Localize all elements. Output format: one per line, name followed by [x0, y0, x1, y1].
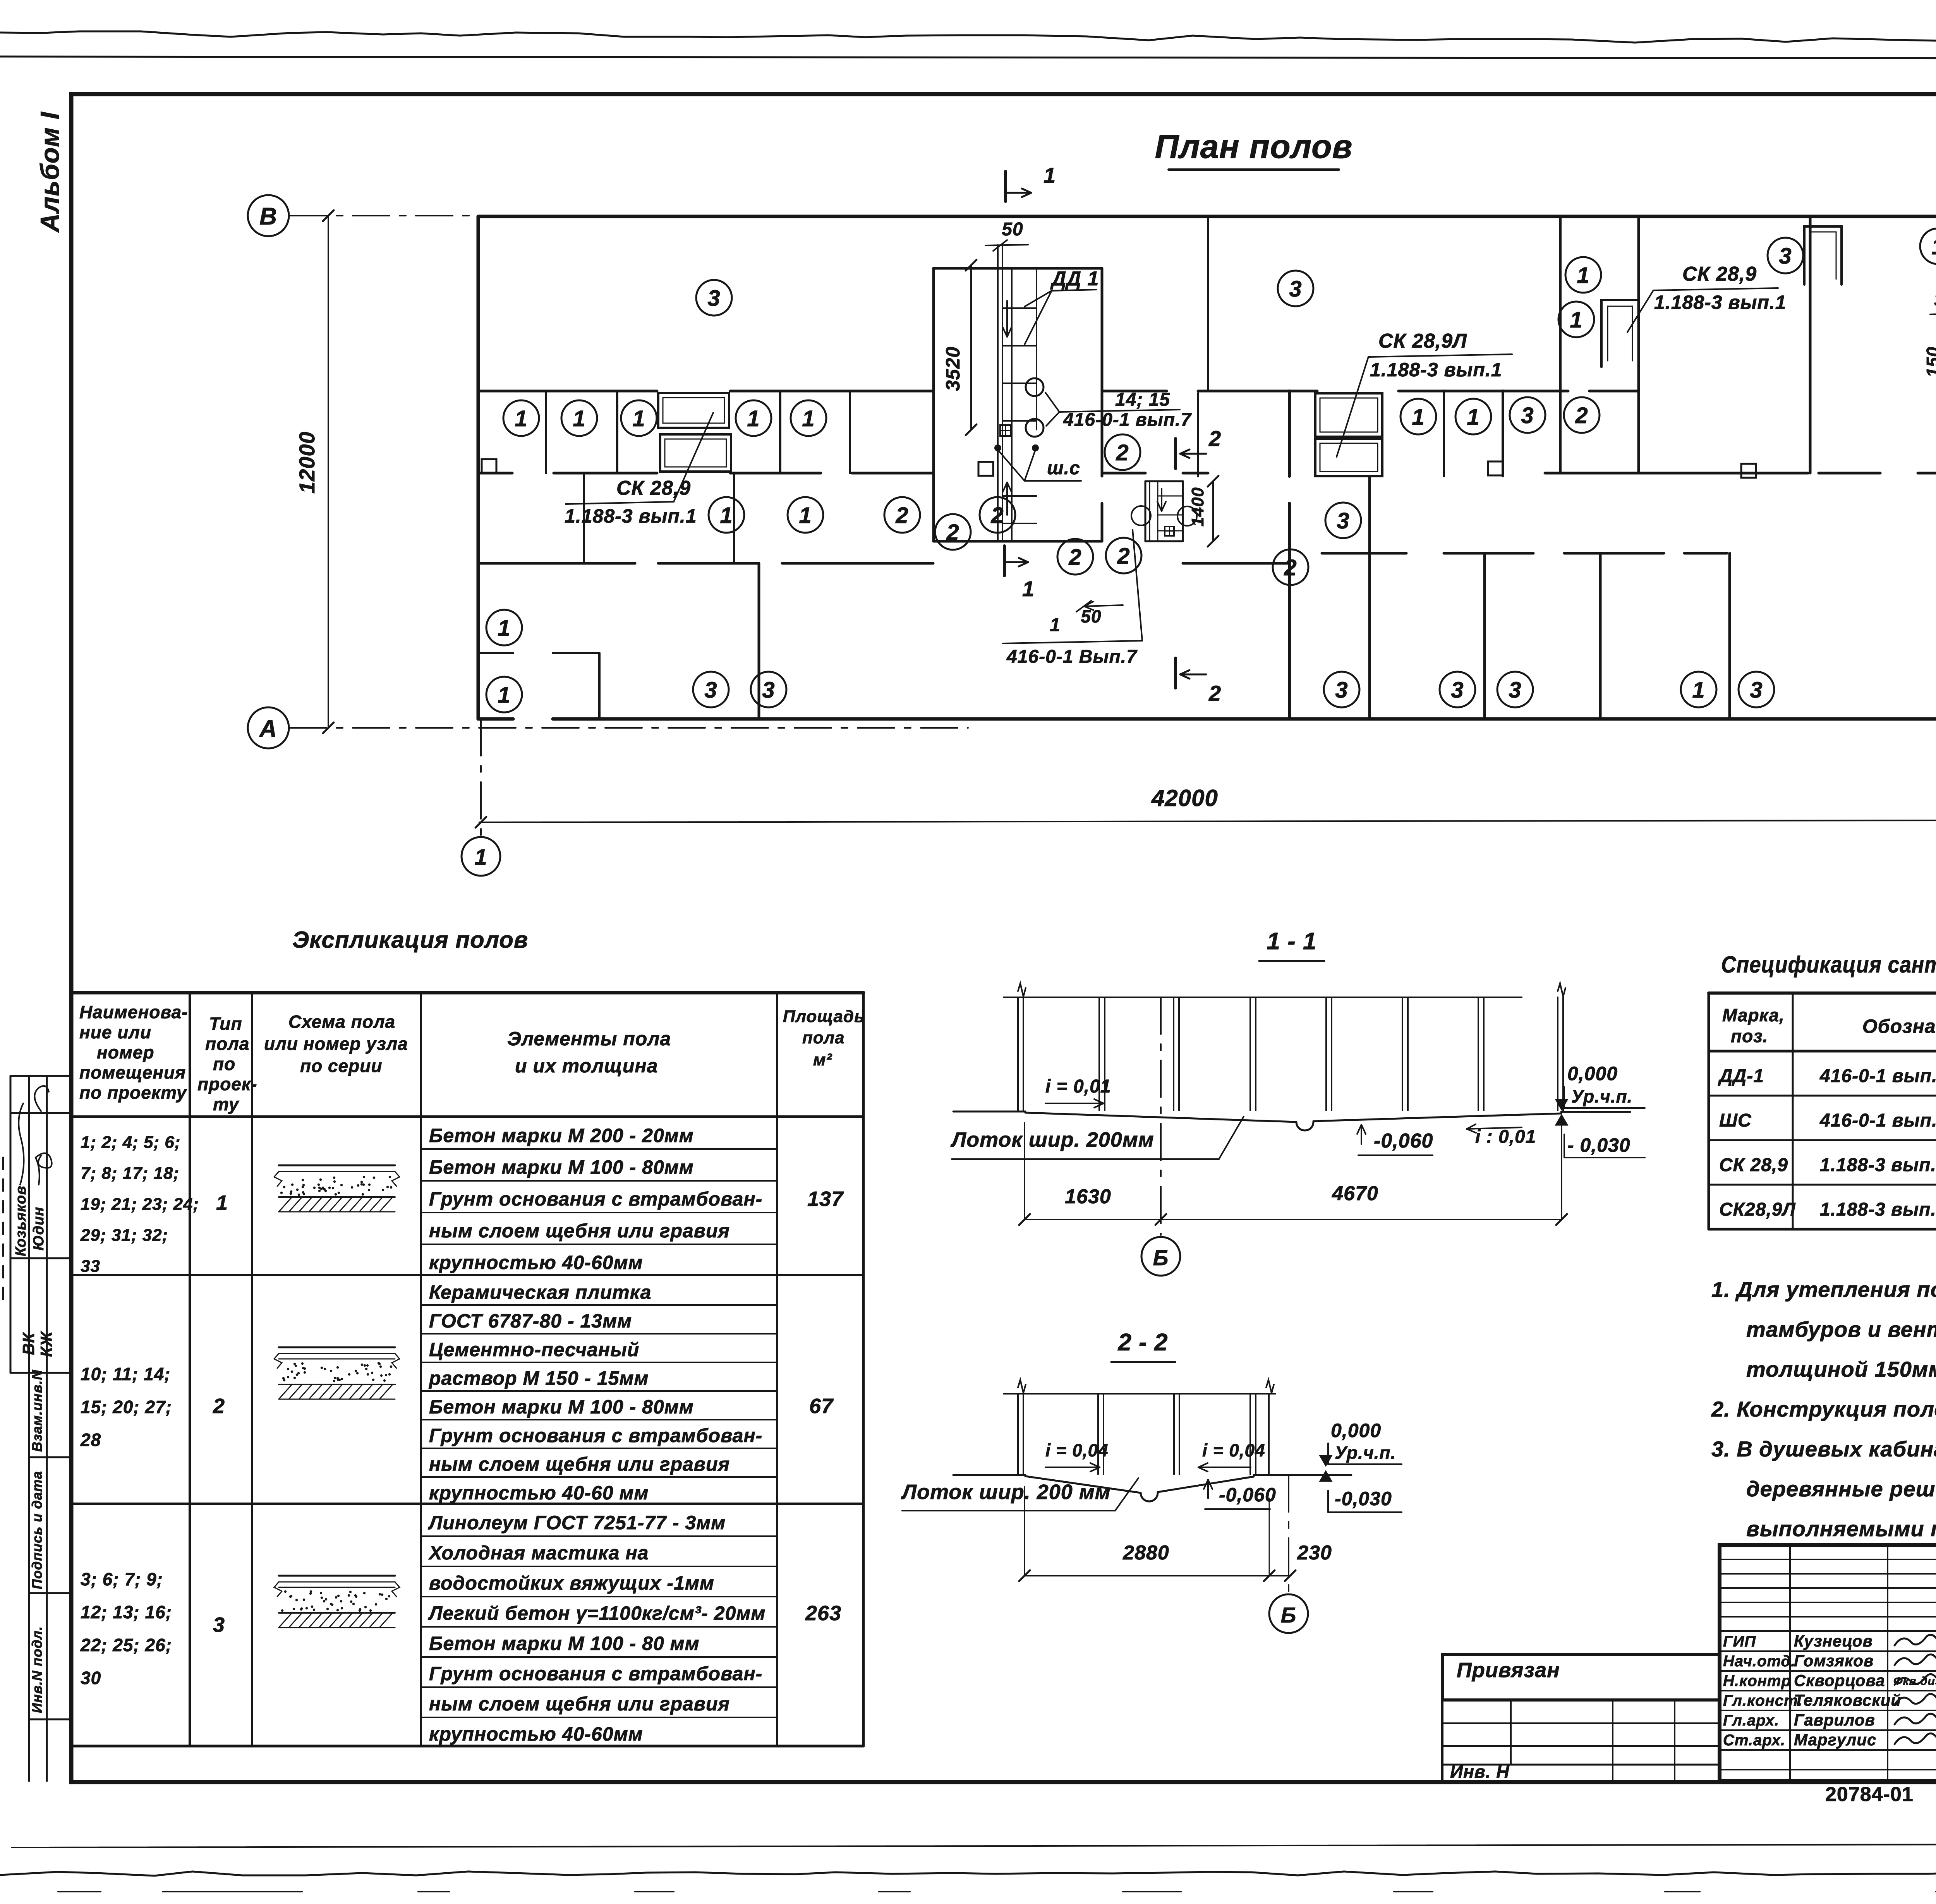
- svg-text:1.188-3 вып.1: 1.188-3 вып.1: [1370, 359, 1502, 381]
- svg-text:Обозначение: Обозначение: [1862, 1015, 1936, 1037]
- left stamp table upper: [10, 1076, 12, 1373]
- svg-text:Н.контр: Н.контр: [1723, 1672, 1791, 1690]
- svg-text:Ст.арх.: Ст.арх.: [1723, 1732, 1785, 1749]
- svg-text:Грунт основания с втрамбован-: Грунт основания с втрамбован-: [429, 1188, 762, 1210]
- svg-text:Бетон марки М 100 - 80 мм: Бетон марки М 100 - 80 мм: [429, 1633, 700, 1654]
- svg-text:Инв. Н: Инв. Н: [1450, 1762, 1509, 1782]
- svg-text:по серии: по серии: [300, 1056, 382, 1076]
- privyazan sub table: [1442, 1722, 1720, 1724]
- svg-text:ДД 1: ДД 1: [1050, 268, 1099, 290]
- svg-text:Экспликация полов: Экспликация полов: [292, 927, 528, 953]
- svg-text:1: 1: [1931, 234, 1936, 259]
- svg-text:крупностью 40-60мм: крупностью 40-60мм: [429, 1723, 643, 1745]
- svg-text:Инв.N подл.: Инв.N подл.: [29, 1626, 45, 1713]
- svg-text:Нач.отд.: Нач.отд.: [1723, 1653, 1795, 1670]
- left stamp dashed mark: [2, 1158, 4, 1305]
- svg-text:ту: ту: [213, 1094, 240, 1114]
- svg-text:3. В душевых кабинах над водо: 3. В душевых кабинах над водоприемными л…: [1711, 1437, 1936, 1461]
- specification row lines: [1709, 1095, 1936, 1097]
- svg-text:1: 1: [1570, 307, 1582, 333]
- section 1-1 wall break marks: [1018, 983, 1026, 997]
- svg-text:Наименова-: Наименова-: [79, 1002, 188, 1022]
- svg-text:300: 300: [1934, 290, 1936, 310]
- svg-text:2: 2: [1284, 555, 1297, 580]
- svg-text:Ур.ч.п.: Ур.ч.п.: [1335, 1443, 1396, 1463]
- corridor wall lower: [478, 472, 512, 475]
- svg-text:Привязан: Привязан: [1457, 1659, 1560, 1682]
- inv box: [1441, 1765, 1443, 1781]
- svg-text:416-0-1 вып. 7: 416-0-1 вып. 7: [1819, 1066, 1936, 1086]
- svg-text:28: 28: [80, 1430, 101, 1450]
- svg-text:1: 1: [632, 406, 645, 431]
- svg-text:3: 3: [1509, 678, 1521, 703]
- partition walls corridor cells: [545, 391, 547, 473]
- svg-text:Б: Б: [1153, 1245, 1169, 1270]
- room-type circle 1: [486, 677, 522, 712]
- bottom stray dashes: [58, 1891, 101, 1892]
- svg-text:-0,060: -0,060: [1219, 1484, 1276, 1506]
- svg-text:проек-: проек-: [197, 1074, 257, 1094]
- svg-text:СК 28,9: СК 28,9: [1682, 263, 1757, 285]
- room-type circle 1: [1455, 399, 1491, 434]
- ladder rungs: [1002, 307, 1037, 309]
- room-type circle 3: [693, 672, 729, 707]
- cabin SK28.9 right: [1601, 300, 1639, 367]
- room-type circle 2: [884, 497, 920, 533]
- svg-text:3: 3: [1750, 678, 1763, 703]
- axis 1 circle: [462, 837, 500, 876]
- dim line 42000: [479, 820, 1936, 822]
- wall bottom rooms middle: [1322, 552, 1406, 555]
- svg-text:1: 1: [1022, 576, 1035, 601]
- svg-text:15; 20; 27;: 15; 20; 27;: [81, 1397, 172, 1417]
- floor schema row3: [279, 1575, 395, 1577]
- dim 1400: [1212, 481, 1214, 541]
- svg-text:1630: 1630: [1065, 1185, 1111, 1208]
- dim line 12000: [328, 216, 329, 728]
- room-type circle 1: [736, 400, 771, 436]
- svg-text:Спецификация сантехкабин и эле: Спецификация сантехкабин и элементов для…: [1721, 952, 1936, 978]
- svg-text:ДД-1: ДД-1: [1718, 1066, 1764, 1086]
- svg-text:Маргулис: Маргулис: [1794, 1731, 1876, 1749]
- svg-text:3: 3: [704, 678, 717, 703]
- svg-text:137: 137: [807, 1187, 844, 1211]
- svg-text:тамбуров и венткамер, уложить: тамбуров и венткамер, уложить на ширину …: [1746, 1317, 1936, 1341]
- svg-text:1.188-3 вып.1: 1.188-3 вып.1: [1820, 1199, 1936, 1220]
- svg-text:Взам.инв.N: Взам.инв.N: [29, 1369, 45, 1452]
- svg-text:по проекту: по проекту: [79, 1082, 187, 1103]
- svg-text:м²: м²: [813, 1050, 832, 1069]
- svg-text:3: 3: [1335, 678, 1348, 703]
- room-type circle 2: [980, 497, 1015, 533]
- svg-text:Альбом I: Альбом I: [35, 111, 65, 233]
- dim 3520 line: [970, 265, 972, 430]
- svg-text:3: 3: [1451, 678, 1464, 703]
- svg-text:ГИП: ГИП: [1723, 1633, 1756, 1650]
- svg-text:1: 1: [802, 406, 815, 431]
- section 1-1 partitions: [1017, 997, 1019, 1110]
- svg-text:22; 25; 26;: 22; 25; 26;: [80, 1635, 172, 1655]
- svg-text:Гаврилов: Гаврилов: [1794, 1711, 1875, 1729]
- svg-text:1.188-3 вып. 1: 1.188-3 вып. 1: [1820, 1155, 1936, 1175]
- svg-text:2 - 2: 2 - 2: [1117, 1329, 1168, 1356]
- cabin pair SK28.9 left: [658, 393, 729, 428]
- svg-text:номер: номер: [97, 1042, 154, 1062]
- svg-text:42000: 42000: [1151, 785, 1218, 811]
- bottom margin line: [12, 1844, 1936, 1847]
- privyazan box: [1442, 1654, 1720, 1700]
- svg-text:Линолеум ГОСТ 7251-77 - 3мм: Линолеум ГОСТ 7251-77 - 3мм: [428, 1512, 726, 1533]
- svg-text:или номер узла: или номер узла: [264, 1034, 408, 1054]
- svg-text:1: 1: [498, 683, 510, 708]
- svg-text:Скворцова: Скворцова: [1794, 1671, 1885, 1690]
- room-type circle 3: [696, 280, 732, 316]
- section 2-2 axis B: [1288, 1475, 1289, 1592]
- room-type circle 1: [709, 497, 744, 533]
- svg-text:ВК: ВК: [19, 1332, 38, 1355]
- svg-text:ШС: ШС: [1719, 1110, 1752, 1131]
- svg-text:-0,060: -0,060: [1374, 1130, 1433, 1152]
- svg-text:Холодная мастика на: Холодная мастика на: [428, 1542, 649, 1564]
- svg-text:Теляковский: Теляковский: [1794, 1691, 1901, 1709]
- top margin line: [0, 57, 1936, 59]
- svg-text:ным слоем щебня или гравия: ным слоем щебня или гравия: [429, 1453, 730, 1475]
- svg-text:Гомзяков: Гомзяков: [1794, 1652, 1874, 1670]
- svg-text:50: 50: [1002, 219, 1023, 240]
- stair rail double line: [997, 245, 999, 541]
- svg-text:ние или: ние или: [79, 1022, 151, 1042]
- svg-text:ш.с: ш.с: [1047, 458, 1080, 479]
- svg-text:Грунт основания с втрамбован-: Грунт основания с втрамбован-: [429, 1425, 762, 1446]
- svg-text:Лоток шир. 200 мм: Лоток шир. 200 мм: [901, 1480, 1111, 1504]
- svg-text:33: 33: [81, 1257, 100, 1276]
- room-type circle 1: [1401, 399, 1436, 434]
- svg-text:3: 3: [1779, 244, 1792, 269]
- svg-text:ным слоем щебня или гравия: ным слоем щебня или гравия: [429, 1693, 730, 1715]
- svg-text:150: 150: [1923, 346, 1936, 377]
- svg-text:i = 0,04: i = 0,04: [1202, 1440, 1265, 1460]
- svg-text:Гл.арх.: Гл.арх.: [1723, 1712, 1779, 1729]
- section mark 2 upper: [1174, 439, 1177, 468]
- svg-text:выполняемыми по месту из строг: выполняемыми по месту из строганных брус…: [1746, 1516, 1936, 1541]
- stair checkered square: [1000, 425, 1011, 436]
- floor schema row1: [279, 1165, 395, 1166]
- tambour walls lower left: [478, 652, 513, 654]
- svg-text:1 - 1: 1 - 1: [1267, 928, 1316, 955]
- svg-text:2: 2: [213, 1395, 225, 1418]
- svg-text:пола: пола: [205, 1034, 249, 1054]
- svg-text:2: 2: [946, 520, 959, 545]
- svg-text:3: 3: [1521, 403, 1534, 428]
- svg-text:КЖ: КЖ: [37, 1331, 55, 1357]
- partition walls lower rooms left: [583, 473, 585, 563]
- room-type circle 2: [1106, 538, 1141, 573]
- svg-text:деревянные решетки по внутренн: деревянные решетки по внутренним габарит…: [1746, 1477, 1936, 1501]
- svg-text:3: 3: [213, 1613, 225, 1636]
- partition walls upper rooms: [1207, 216, 1209, 391]
- axis 1 line: [480, 719, 482, 837]
- secondary stair rungs: [1158, 496, 1183, 497]
- svg-text:1: 1: [1050, 615, 1061, 635]
- svg-text:1: 1: [1044, 163, 1056, 187]
- svg-text:i = 0,04: i = 0,04: [1045, 1440, 1109, 1460]
- explication table frame: [71, 991, 863, 995]
- svg-text:10; 11; 14;: 10; 11; 14;: [81, 1364, 171, 1384]
- room-type circle 1: [561, 400, 597, 436]
- svg-text:Юдин: Юдин: [31, 1207, 47, 1250]
- svg-text:толщиной 150мм.: толщиной 150мм.: [1746, 1357, 1936, 1381]
- room-type circle 1: [791, 400, 826, 436]
- explication row separators: [71, 1274, 863, 1276]
- axis B line: [290, 215, 605, 216]
- svg-text:263: 263: [805, 1602, 841, 1625]
- wall bottom rooms upper left: [478, 562, 635, 565]
- svg-text:2: 2: [895, 503, 908, 528]
- svg-text:14; 15: 14; 15: [1115, 389, 1170, 410]
- svg-text:Бетон марки М 200 - 20мм: Бетон марки М 200 - 20мм: [429, 1125, 694, 1146]
- svg-text:1: 1: [573, 406, 585, 431]
- section 2-2 partitions: [1017, 1394, 1019, 1474]
- svg-text:Козьяков: Козьяков: [13, 1185, 29, 1256]
- svg-text:по: по: [213, 1054, 235, 1074]
- svg-text:Схема пола: Схема пола: [288, 1012, 395, 1032]
- left stamp table lower: [29, 1456, 71, 1458]
- svg-text:Марка,: Марка,: [1722, 1005, 1785, 1025]
- svg-text:План полов: План полов: [1155, 128, 1353, 165]
- secondary stair square: [1165, 527, 1174, 536]
- svg-text:водостойких вяжущих -1мм: водостойких вяжущих -1мм: [429, 1572, 714, 1594]
- svg-text:Цементно-песчаный: Цементно-песчаный: [429, 1339, 639, 1360]
- svg-text:12000: 12000: [295, 431, 319, 494]
- svg-text:Бетон марки М 100 - 80мм: Бетон марки М 100 - 80мм: [429, 1156, 694, 1178]
- svg-text:СК28,9Л: СК28,9Л: [1719, 1199, 1796, 1220]
- svg-text:2. Конструкция полов принята: 2. Конструкция полов принята в соответст…: [1711, 1397, 1936, 1421]
- title block staff row lines: [1720, 1650, 1936, 1652]
- svg-text:2: 2: [990, 503, 1004, 528]
- room-type circle 1: [1558, 302, 1594, 337]
- svg-text:Тип: Тип: [209, 1014, 242, 1034]
- svg-text:Грунт основания с втрамбован-: Грунт основания с втрамбован-: [429, 1663, 762, 1684]
- svg-text:4670: 4670: [1332, 1182, 1378, 1205]
- svg-text:1: 1: [720, 503, 733, 528]
- svg-text:ГОСТ 6787-80 - 13мм: ГОСТ 6787-80 - 13мм: [429, 1310, 632, 1332]
- section 1-1 top line: [1004, 997, 1522, 998]
- svg-text:СК 28,9Л: СК 28,9Л: [1378, 330, 1467, 352]
- svg-text:29; 31; 32;: 29; 31; 32;: [80, 1226, 168, 1245]
- section 2-2 wall break marks: [1018, 1380, 1026, 1393]
- room-type circle 3: [1440, 672, 1475, 707]
- svg-text:19; 21; 23; 24;: 19; 21; 23; 24;: [81, 1195, 199, 1214]
- svg-text:ным слоем щебня или гравия: ным слоем щебня или гравия: [429, 1220, 730, 1242]
- room-type circle 1: [788, 497, 823, 533]
- section 2-2 dim line: [1025, 1575, 1290, 1576]
- svg-text:20784-01: 20784-01: [1825, 1783, 1914, 1806]
- svg-text:Лоток шир. 200мм: Лоток шир. 200мм: [950, 1128, 1154, 1151]
- svg-text:3; 6; 7; 9;: 3; 6; 7; 9;: [81, 1569, 163, 1589]
- svg-text:Бетон марки М 100 - 80мм: Бетон марки М 100 - 80мм: [429, 1396, 694, 1418]
- svg-text:67: 67: [809, 1395, 834, 1418]
- svg-text:0,000: 0,000: [1331, 1420, 1381, 1441]
- svg-text:В: В: [259, 203, 277, 230]
- title block outer: [1720, 1545, 1936, 1781]
- title block signatures: [1895, 1635, 1936, 1645]
- svg-text:416-0-1 вып.7: 416-0-1 вып.7: [1063, 410, 1192, 430]
- room-type circle 3: [1325, 503, 1361, 538]
- room-type circle 2: [1057, 539, 1093, 575]
- room-type circle 3: [751, 672, 786, 707]
- svg-text:12; 13; 16;: 12; 13; 16;: [81, 1602, 172, 1622]
- svg-text:1: 1: [1692, 678, 1705, 703]
- svg-text:крупностью 40-60 мм: крупностью 40-60 мм: [429, 1482, 649, 1504]
- svg-text:i = 0,01: i = 0,01: [1045, 1076, 1111, 1097]
- svg-text:-0,030: -0,030: [1335, 1488, 1392, 1509]
- section mark 1 top: [1004, 172, 1007, 201]
- svg-text:2: 2: [1116, 440, 1129, 465]
- outer wall left: [477, 216, 480, 719]
- svg-text:3: 3: [762, 678, 775, 703]
- svg-text:0,000: 0,000: [1567, 1063, 1618, 1084]
- torn bottom edge: [0, 1871, 1936, 1876]
- room-type circle 2: [1105, 434, 1140, 470]
- svg-text:Подпись и дата: Подпись и дата: [29, 1471, 45, 1589]
- svg-text:230: 230: [1297, 1542, 1332, 1564]
- explication header separator: [71, 1115, 863, 1118]
- stair stringer: [1011, 268, 1013, 541]
- svg-text:3: 3: [1337, 508, 1349, 533]
- svg-text:3: 3: [1289, 276, 1302, 302]
- svg-text:1: 1: [1467, 405, 1479, 430]
- secondary stair rails: [1149, 481, 1150, 541]
- room-type circle 2: [935, 514, 971, 550]
- svg-text:1: 1: [799, 503, 812, 528]
- room-type circle 3: [1278, 271, 1313, 306]
- svg-text:пола: пола: [802, 1028, 845, 1047]
- svg-text:3520: 3520: [942, 346, 964, 391]
- svg-text:помещения: помещения: [79, 1062, 186, 1082]
- room-type circle 1: [1920, 228, 1936, 264]
- svg-text:1. Для утепления пола по пери: 1. Для утепления пола по периметру наруж…: [1711, 1277, 1936, 1302]
- svg-text:2: 2: [1575, 403, 1588, 428]
- svg-text:Кузнецов: Кузнецов: [1794, 1632, 1873, 1650]
- svg-text:крупностью 40-60мм: крупностью 40-60мм: [429, 1252, 643, 1273]
- stair arrows: [1006, 301, 1008, 337]
- cabin top right: [1804, 226, 1842, 285]
- svg-text:Керамическая плитка: Керамическая плитка: [429, 1281, 651, 1303]
- torn top edge of scanned sheet: [0, 31, 1936, 45]
- svg-text:3: 3: [707, 286, 720, 311]
- room-type circle 3: [1739, 672, 1774, 707]
- cabin pair SK28.9L: [1315, 393, 1382, 437]
- svg-text:416-0-1 Вып.7: 416-0-1 Вып.7: [1006, 647, 1138, 667]
- stair shaft box: [934, 267, 1102, 270]
- svg-text:и их толщина: и их толщина: [515, 1055, 658, 1077]
- svg-text:Элементы пола: Элементы пола: [507, 1028, 671, 1050]
- room-type circle 2: [1273, 549, 1308, 585]
- room-type circle 3: [1510, 397, 1545, 433]
- room-type circle 3: [1497, 672, 1533, 707]
- room-type circle 1: [1565, 257, 1601, 293]
- svg-text:- 0,030: - 0,030: [1567, 1134, 1630, 1156]
- svg-text:1: 1: [747, 406, 760, 431]
- corridor wall upper: [478, 390, 657, 393]
- axis A line: [290, 727, 968, 729]
- partition walls bottom band: [1368, 477, 1371, 719]
- svg-text:7; 8; 17; 18;: 7; 8; 17; 18;: [81, 1164, 179, 1183]
- room-type circle 3: [1768, 238, 1803, 273]
- svg-text:Б: Б: [1281, 1603, 1297, 1627]
- stair exit circles: [1131, 506, 1151, 525]
- svg-text:2880: 2880: [1122, 1542, 1169, 1564]
- svg-text:раствор М 150 - 15мм: раствор М 150 - 15мм: [428, 1367, 649, 1389]
- svg-text:2: 2: [1068, 545, 1081, 570]
- svg-text:i : 0,01: i : 0,01: [1475, 1127, 1536, 1147]
- section 1-1 dim line: [1025, 1219, 1562, 1220]
- section 2-2 top line: [1004, 1393, 1275, 1395]
- svg-text:1: 1: [1412, 405, 1425, 430]
- room-type circle 3: [1324, 672, 1359, 707]
- stair circles: [1026, 378, 1044, 396]
- svg-text:А: А: [259, 715, 277, 742]
- section mark 1 bottom: [1003, 546, 1006, 576]
- svg-text:1: 1: [498, 616, 510, 641]
- svg-text:СК 28,9: СК 28,9: [1719, 1155, 1788, 1175]
- floor schema row2: [279, 1347, 395, 1348]
- svg-text:2: 2: [1208, 426, 1221, 451]
- room-type circle 2: [1564, 397, 1600, 433]
- svg-text:30: 30: [81, 1668, 101, 1688]
- section 2-2 floor: [953, 1474, 1025, 1476]
- svg-text:1.188-3 вып.1: 1.188-3 вып.1: [565, 505, 697, 527]
- room-type circle 1: [503, 400, 539, 436]
- svg-text:1: 1: [515, 406, 527, 431]
- partition walls right block: [1637, 216, 1640, 473]
- specification table frame: [1709, 991, 1936, 995]
- svg-text:1: 1: [474, 845, 487, 870]
- title block left columns: [1789, 1545, 1791, 1781]
- vent block squares: [482, 459, 496, 473]
- svg-text:2: 2: [1117, 544, 1130, 569]
- room-type circle 1: [621, 400, 657, 436]
- section 1-1 floor: [953, 1111, 1025, 1113]
- svg-text:поз.: поз.: [1731, 1026, 1768, 1046]
- svg-text:Легкий бетон γ=1100кг/см³- 20м: Легкий бетон γ=1100кг/см³- 20мм: [428, 1602, 765, 1624]
- secondary stair arrow: [1161, 489, 1162, 511]
- svg-text:1: 1: [1577, 263, 1589, 288]
- wall below secondary stair: [1183, 562, 1289, 565]
- secondary stair box: [1145, 480, 1183, 482]
- partition wall long mid: [1288, 391, 1291, 476]
- svg-text:Ур.ч.п.: Ур.ч.п.: [1571, 1086, 1632, 1106]
- svg-text:Площадь: Площадь: [783, 1007, 865, 1026]
- outer wall top: [478, 215, 1936, 218]
- svg-text:416-0-1 вып.7: 416-0-1 вып.7: [1819, 1110, 1936, 1131]
- svg-text:1.188-3 вып.1: 1.188-3 вып.1: [1654, 292, 1787, 313]
- room-type circle 1: [1681, 672, 1716, 707]
- svg-text:Гл.конст.: Гл.конст.: [1723, 1692, 1802, 1709]
- svg-text:2: 2: [1208, 681, 1221, 705]
- axis B circle: [248, 195, 289, 236]
- section mark 2 lower: [1174, 658, 1177, 688]
- section 1-1 axis B: [1160, 997, 1162, 1235]
- outer wall bottom: [478, 717, 513, 721]
- title block left thin rows: [1720, 1559, 1936, 1560]
- axis A circle: [248, 707, 289, 748]
- room-type circle 1: [486, 610, 522, 645]
- svg-text:1; 2; 4; 5; 6;: 1; 2; 4; 5; 6;: [81, 1133, 181, 1152]
- specification header line: [1709, 1050, 1936, 1053]
- label shs: [994, 444, 1001, 451]
- svg-text:1: 1: [216, 1191, 228, 1214]
